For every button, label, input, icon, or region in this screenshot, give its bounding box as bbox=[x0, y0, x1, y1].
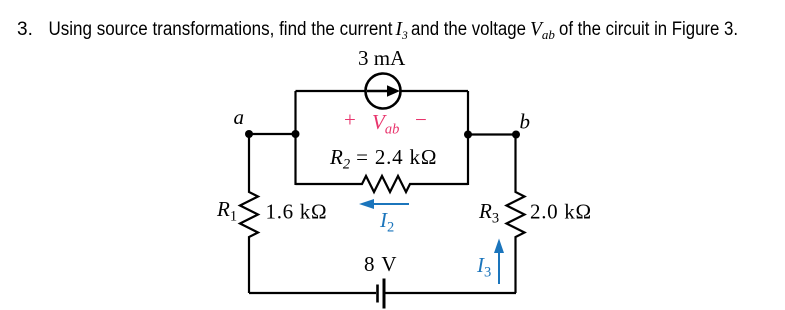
svg-text:I2: I2 bbox=[379, 208, 394, 236]
wire top-right segment bbox=[400, 90, 468, 92]
current source U1 (3 mA) bbox=[366, 74, 401, 109]
svg-text:b: b bbox=[520, 110, 531, 134]
svg-text:I3: I3 bbox=[395, 19, 409, 42]
battery 8 V with bottom wires bbox=[249, 279, 516, 309]
svg-text:a: a bbox=[234, 105, 245, 129]
svg-text:R2 = 2.4 kΩ: R2 = 2.4 kΩ bbox=[329, 145, 437, 173]
svg-text:−: − bbox=[415, 108, 427, 132]
resistor R3 (2.0 kOhm) with wires bbox=[507, 135, 525, 294]
current arrow I2 (blue) bbox=[359, 199, 409, 209]
svg-text:I3: I3 bbox=[476, 253, 491, 281]
svg-text:Vab: Vab bbox=[372, 110, 399, 138]
wire inner-loop left vertical bbox=[294, 91, 296, 185]
svg-text:Using source transformations,: Using source transformations, find the c… bbox=[49, 19, 394, 40]
node b dot bbox=[512, 131, 520, 139]
wire node a to loop bbox=[249, 133, 296, 135]
title text bbox=[17, 19, 738, 42]
resistor R1 (1.6 kOhm) with wires bbox=[240, 134, 258, 293]
junction dot left bbox=[292, 130, 300, 138]
svg-text:R1: R1 bbox=[216, 197, 237, 225]
junction dot right bbox=[464, 131, 472, 139]
svg-text:8 V: 8 V bbox=[364, 252, 398, 276]
wire inner-loop right vertical bbox=[467, 91, 469, 185]
svg-text:and the voltage: and the voltage bbox=[411, 19, 526, 40]
wire top-left segment bbox=[296, 90, 367, 92]
svg-text:Vab: Vab bbox=[530, 19, 555, 42]
label + Vab - (pink) bbox=[344, 108, 427, 138]
svg-text:3.: 3. bbox=[17, 19, 33, 40]
svg-text:+: + bbox=[344, 108, 356, 132]
node a dot bbox=[245, 130, 253, 138]
resistor R2 (2.4 kOhm) with bottom wires of inner loop bbox=[296, 176, 469, 192]
wire loop to node b bbox=[468, 133, 516, 135]
svg-text:R3: R3 bbox=[478, 199, 499, 227]
current arrow I3 (blue) bbox=[494, 239, 504, 285]
svg-text:1.6 kΩ: 1.6 kΩ bbox=[266, 200, 328, 224]
svg-text:of the circuit in Figure 3.: of the circuit in Figure 3. bbox=[559, 19, 738, 40]
svg-text:3 mA: 3 mA bbox=[358, 46, 406, 70]
svg-text:2.0 kΩ: 2.0 kΩ bbox=[530, 200, 592, 224]
